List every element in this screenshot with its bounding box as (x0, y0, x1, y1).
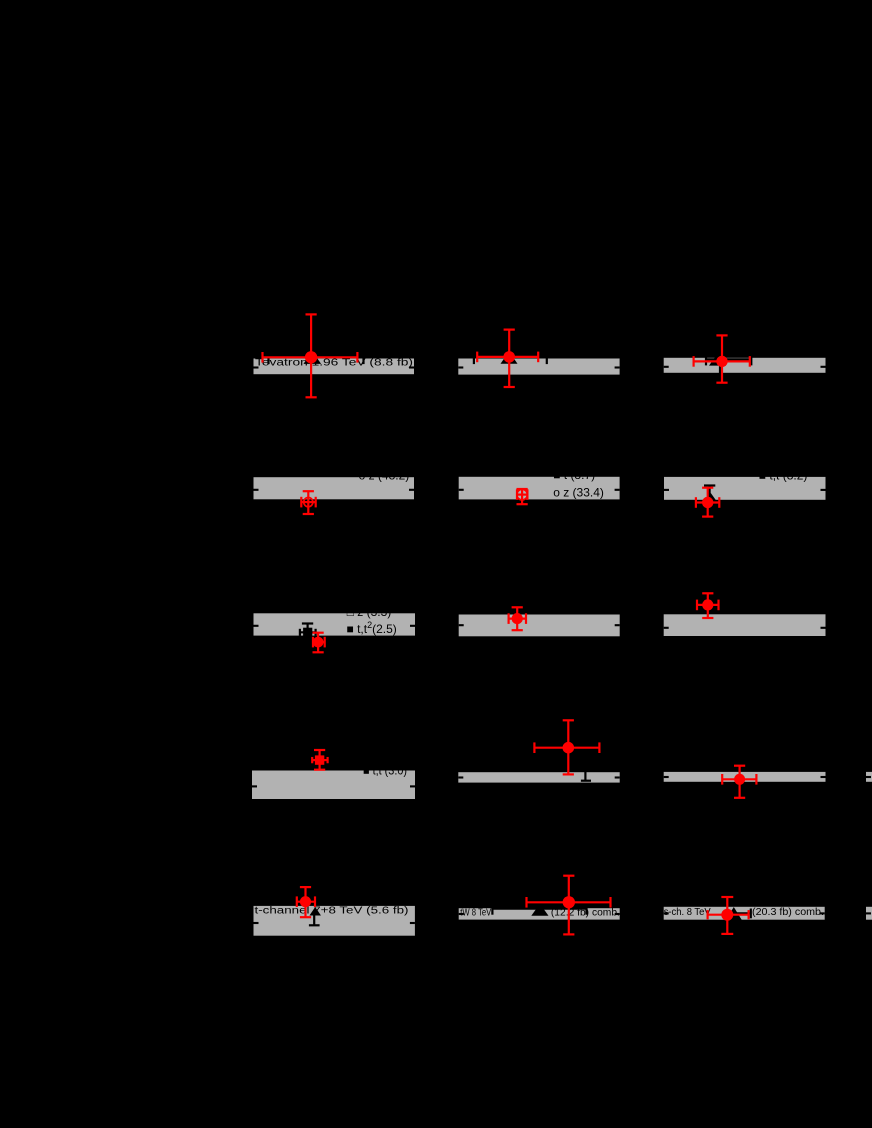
svg-text:■ t,t (8.2): ■ t,t (8.2) (759, 468, 808, 482)
svg-text:■ t (8.7): ■ t (8.7) (553, 468, 595, 482)
svg-text:o z (33.4): o z (33.4) (553, 485, 604, 499)
svg-text:■ t,t (3.0): ■ t,t (3.0) (363, 764, 407, 778)
svg-text:Tevatron 1.96 TeV (8.8 fb): Tevatron 1.96 TeV (8.8 fb) (255, 358, 413, 369)
svg-text:□ z (3.3): □ z (3.3) (347, 605, 392, 619)
svg-text:tW 8 TeV: tW 8 TeV (460, 908, 491, 919)
svg-text:(20.3 fb) comb.: (20.3 fb) comb. (752, 907, 824, 918)
svg-text:■ t,t2(2.5): ■ t,t2(2.5) (347, 620, 397, 636)
svg-text:s-ch. 8 TeV: s-ch. 8 TeV (664, 907, 711, 918)
svg-text:t-channel 7+8 TeV (5.6 fb): t-channel 7+8 TeV (5.6 fb) (255, 906, 409, 917)
svg-text:o z (48.2): o z (48.2) (359, 468, 410, 482)
